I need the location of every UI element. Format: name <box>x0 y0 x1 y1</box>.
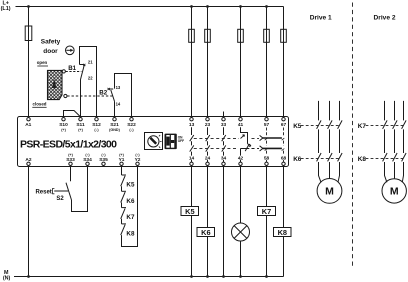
label Safety door <box>41 39 61 56</box>
svg-text:Y1: Y1 <box>119 157 125 163</box>
fuse on 23 line <box>205 29 211 42</box>
mechanical link door to B2 <box>67 95 112 97</box>
relay output bridge 57-58 <box>260 128 285 163</box>
switch B2 positive-opening cross <box>108 88 110 90</box>
relay output bridge 67-68 <box>260 128 285 163</box>
labels ON OFF <box>178 136 184 144</box>
wire 24 to K6 coil <box>207 167 209 228</box>
door direction arrow <box>52 79 57 88</box>
wire 33 stub <box>223 112 225 118</box>
svg-text:OFF: OFF <box>178 139 184 143</box>
svg-text:M: M <box>325 186 334 198</box>
terminal circles bottom row <box>27 162 285 165</box>
terminal circles top row <box>27 118 285 121</box>
safety relay U1 PSR-ESD housing <box>18 117 289 167</box>
wire 41 drop <box>240 7 242 118</box>
svg-text:33: 33 <box>221 122 227 128</box>
switch B1 positive-opening cross <box>83 64 85 66</box>
svg-text:14: 14 <box>116 101 121 106</box>
svg-text:K5: K5 <box>185 207 194 216</box>
motor M drive 1 <box>317 179 342 204</box>
fuse on 13 line <box>189 29 195 42</box>
motor M drive 2 <box>382 179 406 203</box>
svg-text:K6: K6 <box>293 156 302 163</box>
node M (N) label <box>3 270 11 281</box>
svg-text:K8: K8 <box>126 231 135 238</box>
svg-text:K5: K5 <box>126 182 135 189</box>
junction dots on top rail <box>27 5 268 8</box>
svg-text:closed: closed <box>33 101 47 106</box>
svg-text:Reset: Reset <box>35 190 51 196</box>
svg-text:13: 13 <box>189 122 195 128</box>
labels K5 K6 K7 K8 (feedback chain) <box>126 182 135 238</box>
label K7 with linkage to drive 2 <box>358 123 367 130</box>
label pin 22 <box>88 75 93 80</box>
svg-text:(↓): (↓) <box>129 128 134 132</box>
svg-text:K6: K6 <box>201 228 210 237</box>
fuse F1 on A1 line <box>25 26 32 41</box>
label B1 <box>68 65 76 72</box>
relay contact 33-34 <box>222 127 226 162</box>
terminal polarity symbols bottom row <box>68 153 140 157</box>
svg-text:K7: K7 <box>126 214 135 221</box>
safety door leaf (hatched) <box>48 70 63 99</box>
drive 1 phase lines with K5/K6 contacts <box>317 101 343 182</box>
svg-text:S33: S33 <box>66 157 75 163</box>
reset button S2 wiring S33-S34 <box>53 167 88 212</box>
svg-text:(+): (+) <box>78 128 83 132</box>
svg-text:(+): (+) <box>61 128 66 132</box>
svg-text:22: 22 <box>88 75 93 80</box>
dashed separator between drives <box>352 3 354 269</box>
contactor coil K8 <box>274 228 292 237</box>
node L+ (L1) label <box>1 0 11 12</box>
wire K5 coil to rail <box>191 216 193 277</box>
label K6 with linkage to drive 1 <box>293 156 302 163</box>
svg-text:door: door <box>43 48 58 55</box>
switch B1 fixed tick pin 21 <box>80 64 84 66</box>
contactor coil K5 <box>181 207 199 216</box>
svg-text:Safety: Safety <box>41 39 61 46</box>
svg-text:K6: K6 <box>126 198 135 205</box>
wire B1 arm to S11 <box>80 80 82 118</box>
door pivot circle upper <box>62 70 65 73</box>
switch B1 moving arm <box>81 65 85 80</box>
svg-text:(↑): (↑) <box>101 153 106 157</box>
svg-text:(+): (+) <box>68 153 73 157</box>
label S2 <box>56 196 64 202</box>
DIP switch icon <box>165 134 177 150</box>
wire lamp to rail <box>240 241 242 277</box>
relay contact 13-14 <box>190 127 194 162</box>
svg-text:A2: A2 <box>25 157 31 163</box>
svg-text:K7: K7 <box>358 123 367 130</box>
svg-text:Drive 2: Drive 2 <box>374 15 396 22</box>
switch B2 fixed tick pin 13 <box>108 88 113 90</box>
wire K7 coil to rail <box>266 216 268 277</box>
junction dots on bottom rail <box>27 275 268 278</box>
svg-text:13: 13 <box>116 85 121 90</box>
drive 2 phase lines with K7/K8 contacts <box>383 101 407 182</box>
svg-text:Y2: Y2 <box>135 157 141 163</box>
feedback contact K8 <box>121 167 138 247</box>
relay contact 23-24 <box>206 127 210 162</box>
switch B2 moving arm <box>111 90 115 101</box>
contactor coil K6 <box>197 228 215 237</box>
svg-text:(L1): (L1) <box>1 6 11 12</box>
label closed (underlined) <box>33 101 47 106</box>
svg-text:21: 21 <box>88 59 93 64</box>
label K8 with linkage to drive 2 <box>358 156 367 163</box>
relay NC contact 41-42 <box>241 127 260 162</box>
label B2 <box>99 90 107 97</box>
svg-text:open: open <box>37 60 48 65</box>
wire 58 to K7 coil <box>266 167 268 207</box>
terminal labels bottom row <box>25 155 286 163</box>
svg-text:(↑): (↑) <box>135 153 140 157</box>
switch B2 wire loop to S22 <box>115 74 132 118</box>
relay linkage dashes row 1 <box>194 137 239 139</box>
relay linkage dashes row 2 <box>194 148 239 150</box>
wire A2 to bottom rail <box>28 167 30 277</box>
wire K8 coil corner to rail <box>283 237 285 277</box>
switch B1 wire loop to S12 <box>80 47 97 118</box>
svg-text:K8: K8 <box>278 228 287 237</box>
feedback contact K7 <box>121 208 126 224</box>
wire 57 drop <box>266 7 268 118</box>
wire 34 to rail <box>223 167 225 277</box>
label pin 21 <box>88 59 93 64</box>
svg-text:Drive 1: Drive 1 <box>310 15 332 22</box>
svg-text:67: 67 <box>281 122 287 128</box>
label open (underlined) <box>37 60 48 65</box>
wire A1 drop <box>28 7 30 118</box>
svg-text:B1: B1 <box>68 65 76 72</box>
terminal labels top row <box>25 122 286 128</box>
label Reset <box>35 190 51 196</box>
wire K6 coil to rail <box>207 237 209 277</box>
label pin 13 <box>116 85 121 90</box>
terminal polarity symbols top row <box>61 128 134 132</box>
fuse on 57 line <box>264 29 270 42</box>
wire S10 bridge to S11 <box>64 111 81 118</box>
svg-text:M: M <box>390 186 399 198</box>
wire bottom return rail M <box>14 276 284 278</box>
fuse on 41 line <box>238 29 244 42</box>
wire 67 drop from rail corner <box>283 7 285 118</box>
wire 13 drop <box>191 7 193 118</box>
svg-text:(↑): (↑) <box>85 153 90 157</box>
fuse on 67 line <box>281 29 287 42</box>
mechanical link door to B1 <box>66 71 82 73</box>
rotary switch icon <box>145 133 163 150</box>
label Drive 1 <box>310 15 332 22</box>
svg-text:S2: S2 <box>56 196 64 202</box>
svg-text:(+): (+) <box>119 153 124 157</box>
svg-text:(GND): (GND) <box>109 128 120 132</box>
svg-text:A1: A1 <box>25 122 31 128</box>
door pivot circle lower <box>64 94 67 97</box>
wire 23 drop <box>207 7 209 118</box>
wire B2 arm to S21 <box>114 101 116 117</box>
svg-text:K7: K7 <box>262 207 271 216</box>
svg-text:(↓): (↓) <box>94 128 99 132</box>
svg-text:S34: S34 <box>83 157 92 163</box>
wire 68 to K8 coil <box>283 167 285 228</box>
label Drive 2 <box>374 15 396 22</box>
feedback chain Y1-Y2 contact K5 <box>121 167 126 192</box>
svg-text:B2: B2 <box>99 90 107 97</box>
svg-text:S35: S35 <box>99 157 108 163</box>
svg-text:PSR-ESD/5x1/1x2/300: PSR-ESD/5x1/1x2/300 <box>20 138 117 150</box>
feedback contact K6 <box>121 191 126 207</box>
wire 42 to lamp <box>240 167 242 224</box>
svg-text:K5: K5 <box>293 123 302 130</box>
svg-text:23: 23 <box>205 122 211 128</box>
svg-text:41: 41 <box>238 122 244 128</box>
svg-text:(N): (N) <box>3 275 11 281</box>
label PSR-ESD/5x1/1x2/300 <box>20 138 117 150</box>
svg-text:K8: K8 <box>358 156 367 163</box>
icon circled arrow (door actuation) <box>66 46 75 55</box>
indicator lamp <box>232 223 250 241</box>
contactor coil K7 <box>258 207 276 216</box>
svg-text:57: 57 <box>264 122 270 128</box>
wire 14 to K5 coil <box>191 167 193 207</box>
label pin 14 <box>116 101 121 106</box>
label K5 with linkage to drive 1 <box>293 123 302 130</box>
wire top supply rail L+ <box>16 6 284 8</box>
